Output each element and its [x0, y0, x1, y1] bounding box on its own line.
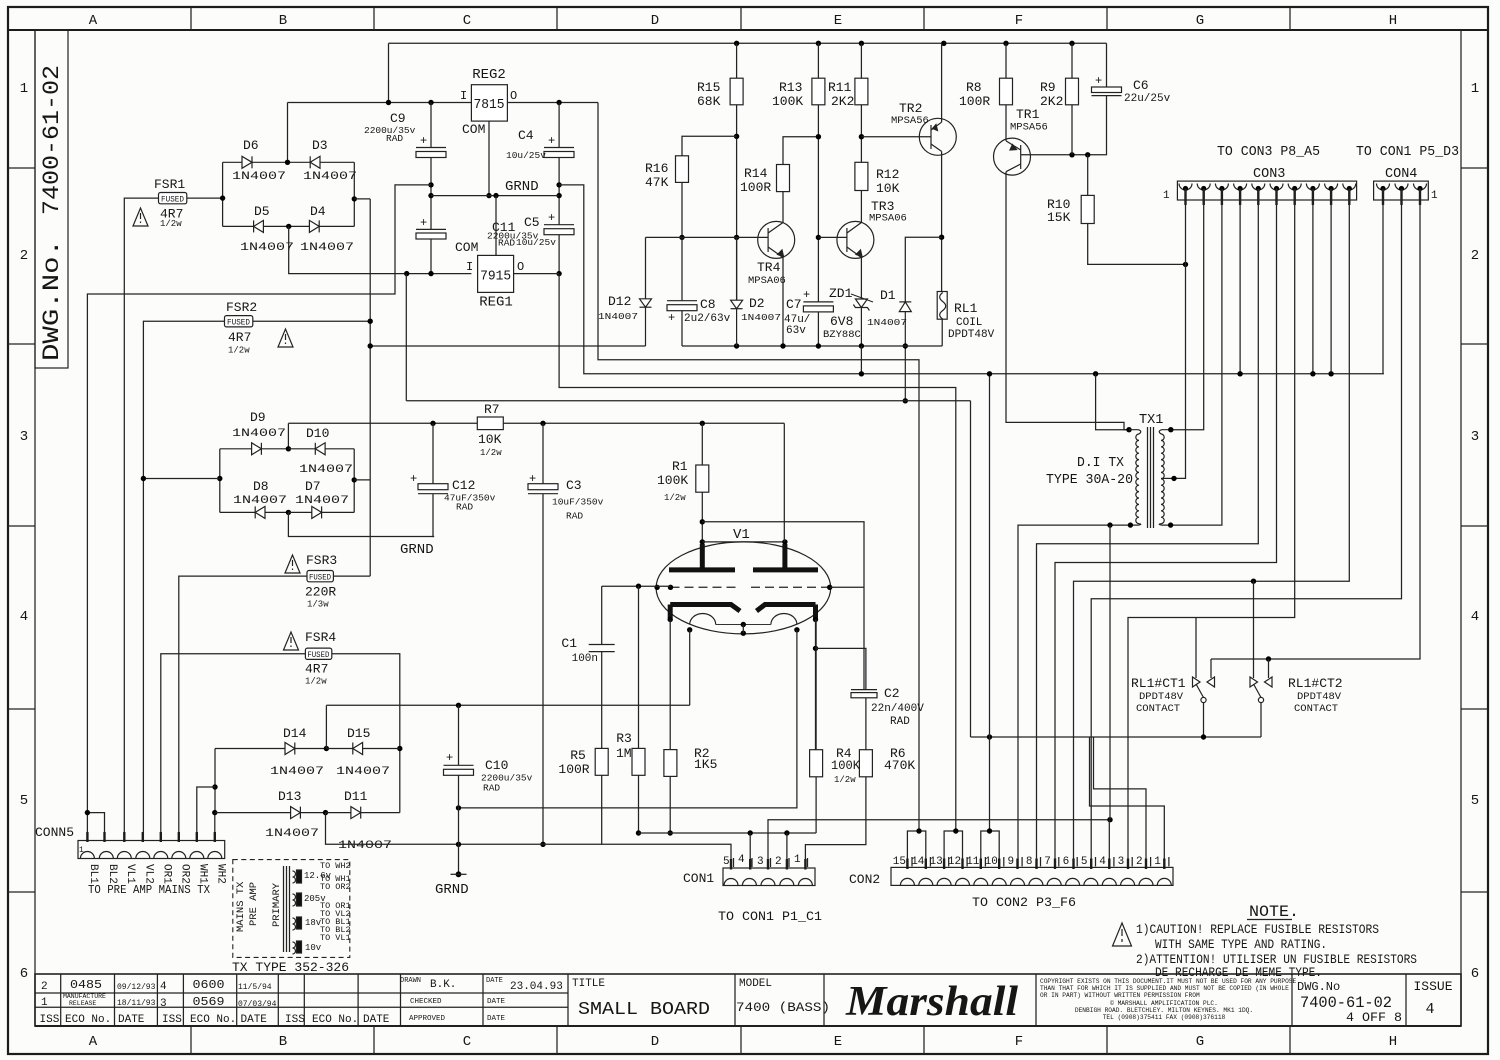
- svg-text:FUSED: FUSED: [309, 574, 331, 583]
- fusible resistor FSR3: [307, 571, 333, 582]
- svg-text:6: 6: [1063, 856, 1070, 868]
- svg-text:4: 4: [20, 609, 28, 625]
- wire R6 bottom to CON1 pin1: [805, 777, 866, 868]
- diode D8: [220, 506, 289, 518]
- resistor R12: [855, 162, 868, 190]
- svg-text:+: +: [548, 211, 555, 225]
- wire R4 top to cathode dot: [815, 620, 817, 750]
- svg-text:MPSA56: MPSA56: [1010, 122, 1048, 134]
- wire C9 column: [430, 103, 432, 148]
- svg-text:11/5/94: 11/5/94: [238, 983, 272, 992]
- wire CON3 pin3 drop to TX1 bottom right: [1171, 189, 1222, 526]
- V1 anode plates: [669, 567, 735, 572]
- capacitor C10: [458, 705, 460, 765]
- svg-text:C7: C7: [786, 297, 802, 312]
- svg-text:R8: R8: [966, 80, 982, 95]
- wire -15V down: [559, 274, 956, 831]
- svg-text:11: 11: [966, 856, 980, 868]
- svg-text:3: 3: [1118, 856, 1125, 868]
- wire BL2 jog: [87, 813, 104, 841]
- ground symbol GRND bottom: [456, 871, 462, 877]
- svg-text:TO WH2: TO WH2: [320, 861, 351, 871]
- svg-text:B: B: [279, 13, 287, 29]
- svg-text:470K: 470K: [884, 758, 915, 773]
- svg-text:FUSED: FUSED: [161, 196, 184, 205]
- svg-text:2: 2: [1136, 856, 1143, 868]
- wire CON1 pin4 riser: [749, 833, 751, 868]
- wire CON3 pin5 drop to CON2 pin8: [1037, 189, 1259, 869]
- svg-text:TO VL1: TO VL1: [320, 933, 351, 943]
- wire vertical from REG1 input line down: [405, 274, 407, 401]
- wire R15 tap to R16: [682, 136, 737, 156]
- svg-text:GRND: GRND: [400, 542, 434, 558]
- svg-text:1N4007: 1N4007: [336, 766, 390, 778]
- wire HT drop to V1b anode: [783, 423, 785, 542]
- diode D7: [288, 506, 354, 518]
- svg-text:C4: C4: [518, 128, 534, 143]
- svg-text:FSR4: FSR4: [305, 630, 336, 645]
- wire bridge1 bottom center to REG1 input line: [289, 226, 472, 273]
- svg-text:TO CON1 P5_D3: TO CON1 P5_D3: [1356, 145, 1459, 160]
- svg-text:TX1: TX1: [1139, 413, 1163, 428]
- svg-text:4R7: 4R7: [305, 662, 328, 677]
- wire FSR4 left lead to OR1 column: [161, 654, 306, 841]
- svg-text:D7: D7: [305, 479, 321, 494]
- svg-text:O: O: [517, 260, 524, 274]
- resistor R9: [1071, 43, 1073, 78]
- svg-text:1: 1: [1154, 856, 1161, 868]
- svg-text:5: 5: [1081, 856, 1088, 868]
- svg-text:TO CON1 P1_C1: TO CON1 P1_C1: [718, 909, 822, 924]
- wire component ground rail: [682, 345, 942, 347]
- svg-text:TR1: TR1: [1016, 107, 1040, 122]
- svg-text:FSR1: FSR1: [154, 177, 185, 192]
- svg-text:D10: D10: [306, 426, 329, 441]
- svg-text:1N4007: 1N4007: [270, 766, 324, 778]
- svg-text:WH2: WH2: [215, 864, 227, 884]
- svg-text:0569: 0569: [193, 995, 225, 1009]
- svg-text:I: I: [466, 260, 473, 274]
- wire R11 bottom to R12 / TR2 base: [860, 105, 862, 163]
- svg-text:R13: R13: [779, 80, 802, 95]
- svg-text:1: 1: [794, 854, 801, 866]
- wire anode tie: [702, 541, 785, 543]
- node bridge1 top center: [285, 160, 290, 165]
- svg-text:TO PRE AMP MAINS TX: TO PRE AMP MAINS TX: [88, 883, 210, 897]
- V1 cathodes: [670, 605, 740, 612]
- svg-text:1: 1: [1163, 190, 1170, 202]
- wire TR4 base row: [646, 236, 769, 238]
- svg-text:1N4007: 1N4007: [303, 171, 357, 183]
- wire R2 bottom: [669, 776, 671, 833]
- diode D11: [326, 807, 400, 819]
- wire D14 center tap up to heater rail: [325, 705, 327, 748]
- svg-text:DPDT48V: DPDT48V: [1139, 691, 1184, 703]
- wire CON1 pin3 riser to TX tap line: [768, 820, 1110, 868]
- svg-text:100K: 100K: [657, 473, 688, 488]
- wire GRND rail: [431, 195, 559, 197]
- svg-text:CON4: CON4: [1385, 167, 1417, 182]
- svg-text:TO CON2 P3_F6: TO CON2 P3_F6: [972, 895, 1076, 910]
- svg-text:MAINS TX: MAINS TX: [235, 881, 247, 932]
- wire right tap to grnd line: [354, 479, 370, 481]
- wire C10 bottom column: [458, 775, 460, 874]
- svg-text:D11: D11: [344, 789, 368, 804]
- wire bridge1 left rail: [222, 162, 224, 226]
- svg-text:COIL: COIL: [956, 317, 982, 329]
- svg-text:3: 3: [20, 429, 28, 445]
- svg-text:10u/25v: 10u/25v: [516, 237, 556, 248]
- svg-text:OR1: OR1: [161, 864, 173, 884]
- svg-text:D: D: [651, 13, 659, 29]
- wire ground riser to CON2 link 11-10: [989, 374, 991, 831]
- wire long vertical FSR feed: [369, 199, 371, 576]
- wire ground bus taps: [1093, 371, 1098, 376]
- svg-text:© MARSHALL AMPLIFICATION PLC.: © MARSHALL AMPLIFICATION PLC.: [1110, 1000, 1218, 1007]
- svg-text:2u2/63v: 2u2/63v: [684, 313, 731, 325]
- svg-text:5: 5: [1471, 793, 1479, 809]
- svg-text:10u/25v: 10u/25v: [506, 150, 546, 161]
- wire REG1 COM up to GRND rail: [495, 196, 497, 256]
- svg-text:220R: 220R: [305, 585, 336, 600]
- svg-text:47K: 47K: [645, 175, 669, 190]
- svg-text:DATE: DATE: [487, 998, 506, 1006]
- svg-text:E: E: [834, 1034, 842, 1050]
- svg-text:+: +: [803, 288, 810, 302]
- wire CON4 pin2 drop to CON2 pin5: [1091, 189, 1401, 869]
- svg-text:6: 6: [20, 966, 28, 982]
- wire R1 bottom / anode column: [701, 492, 703, 556]
- svg-text:D: D: [651, 1034, 659, 1050]
- svg-text:1N4007: 1N4007: [299, 464, 353, 476]
- svg-text:7: 7: [1044, 856, 1051, 868]
- wire REG1 output: [514, 273, 560, 275]
- CONN5 pin labels: [87, 864, 227, 884]
- svg-text:DENBIGH ROAD. BLETCHLEY. MILTO: DENBIGH ROAD. BLETCHLEY. MILTON KEYNES. …: [1075, 1007, 1253, 1014]
- svg-text:COM: COM: [455, 240, 478, 255]
- svg-text:4: 4: [160, 981, 167, 993]
- wire cathode rail: [639, 832, 817, 834]
- svg-text:C9: C9: [390, 111, 406, 126]
- svg-text:THAN THAT FOR WHICH IT IS SUPP: THAN THAT FOR WHICH IT IS SUPPLIED AND M…: [1040, 985, 1289, 992]
- svg-text:2: 2: [41, 981, 48, 993]
- wire TR1 collector down to TX1: [1006, 172, 1129, 430]
- wire CON3 pin2 drop to TX1 top right: [1171, 189, 1204, 430]
- svg-text:Marshall: Marshall: [845, 979, 1018, 1025]
- wire CON4 pin1 drop to ground bus end: [1382, 189, 1384, 374]
- svg-text:FUSED: FUSED: [307, 651, 329, 660]
- wire bridge1 right rail: [353, 162, 355, 226]
- node bridge1 right rail tap: [352, 196, 357, 201]
- svg-text:E: E: [834, 13, 842, 29]
- svg-text:ISS: ISS: [162, 1014, 182, 1026]
- svg-text:RAD: RAD: [566, 511, 583, 522]
- svg-text:CON2: CON2: [849, 872, 880, 887]
- svg-text:D5: D5: [254, 204, 270, 219]
- wire CON3 pin4 drop to ground bus: [1239, 189, 1241, 374]
- svg-text:+: +: [529, 472, 536, 486]
- warning triangle FSR4: [284, 632, 299, 650]
- diode D2: [731, 300, 743, 346]
- svg-text:R16: R16: [645, 161, 668, 176]
- svg-text:1: 1: [41, 997, 48, 1009]
- svg-text:100R: 100R: [959, 94, 990, 109]
- wire C1 bottom to R5: [601, 652, 603, 749]
- svg-text:1M: 1M: [616, 746, 632, 761]
- svg-text:+: +: [420, 216, 427, 230]
- svg-text:15: 15: [893, 856, 906, 868]
- wire C11 bottom to REG1 input line: [430, 239, 432, 274]
- svg-text:5: 5: [20, 793, 28, 809]
- wire FSR3 left lead to OR2 column: [179, 576, 307, 840]
- svg-text:6V8: 6V8: [830, 314, 853, 329]
- svg-text:+: +: [410, 472, 417, 486]
- svg-text:WITH SAME TYPE AND RATING.: WITH SAME TYPE AND RATING.: [1155, 937, 1327, 952]
- wire R14 top to R13 bottom: [783, 137, 818, 165]
- svg-text:+: +: [420, 134, 427, 148]
- svg-text:63v: 63v: [786, 325, 806, 337]
- svg-text:BL2: BL2: [106, 864, 118, 884]
- svg-text:NOTE.: NOTE.: [1249, 903, 1299, 921]
- wire +15V down right of C4: [598, 103, 919, 832]
- relay coil RL1: [937, 292, 947, 320]
- svg-text:REG2: REG2: [472, 67, 506, 83]
- svg-text:RELEASE: RELEASE: [69, 1000, 96, 1007]
- resistor R5: [595, 748, 608, 775]
- wire D12 branch: [645, 237, 647, 298]
- wire CT2 upper feed: [1253, 581, 1255, 678]
- wire bridge1 right tap across to FSR vertical: [354, 198, 370, 200]
- svg-text:TR4: TR4: [757, 260, 781, 275]
- capacitor C9: [416, 148, 446, 158]
- svg-text:1/2w: 1/2w: [160, 219, 182, 229]
- capacitor C11: [416, 229, 446, 239]
- wire FSR2 right lead: [253, 320, 370, 322]
- svg-text:D1: D1: [880, 288, 896, 303]
- wire V1b cathode column: [815, 620, 817, 750]
- svg-text:FSR2: FSR2: [226, 300, 257, 315]
- svg-text:D9: D9: [250, 410, 266, 425]
- svg-text:10K: 10K: [478, 432, 502, 447]
- capacitor C4: [544, 148, 574, 158]
- wire FSR1 left lead to VL1 column: [124, 198, 158, 840]
- svg-text:VL1: VL1: [124, 864, 136, 884]
- wire TX1 bottom left lead to CON2 pin9: [1018, 525, 1130, 868]
- wire bridge2 left tap to VL2 column: [143, 478, 219, 480]
- svg-text:07/03/94: 07/03/94: [238, 1000, 277, 1009]
- transistor TR2: [919, 118, 956, 155]
- wire V1b grid solid extension: [830, 586, 864, 588]
- svg-text:10: 10: [985, 856, 998, 868]
- svg-text:100n: 100n: [572, 653, 598, 665]
- resistor R2: [669, 620, 671, 750]
- svg-text:1N4007: 1N4007: [240, 242, 294, 254]
- resistor R1: [701, 423, 703, 465]
- svg-text:DWG.No: DWG.No: [1297, 980, 1340, 994]
- svg-text:R1: R1: [672, 459, 688, 474]
- svg-text:C3: C3: [566, 478, 582, 493]
- svg-text:TO CON3 P8_A5: TO CON3 P8_A5: [1217, 145, 1320, 160]
- svg-text:2K2: 2K2: [1040, 94, 1063, 109]
- svg-text:4: 4: [738, 854, 745, 866]
- svg-text:1N4007: 1N4007: [598, 311, 638, 322]
- wire TR4 emitter down to rail: [782, 258, 784, 347]
- svg-text:1N4007: 1N4007: [233, 495, 287, 507]
- wire TR1 base line: [1021, 154, 1106, 156]
- diode D14: [215, 743, 326, 755]
- svg-text:TYPE 30A-20: TYPE 30A-20: [1046, 473, 1133, 488]
- svg-text:1/2w: 1/2w: [305, 677, 327, 687]
- wire TR3 emitter to ZD1: [860, 258, 862, 300]
- warning triangle FSR3: [285, 555, 300, 573]
- wire heater left pin down: [689, 630, 691, 706]
- diode D13: [215, 807, 326, 819]
- svg-text:6: 6: [1471, 966, 1479, 982]
- svg-text:1)CAUTION! REPLACE FUSIBLE RES: 1)CAUTION! REPLACE FUSIBLE RESISTORS: [1136, 922, 1379, 937]
- svg-text:A: A: [89, 1034, 98, 1050]
- wire C2 bottom to R6: [865, 698, 867, 750]
- zener diode ZD1: [851, 294, 873, 346]
- svg-text:15K: 15K: [1047, 210, 1071, 225]
- warning triangle FSR1: [133, 208, 148, 226]
- svg-text:+: +: [548, 134, 555, 148]
- svg-text:RAD: RAD: [498, 238, 515, 249]
- TX secondary windings: [293, 870, 302, 954]
- resistor R10: [1087, 155, 1089, 196]
- TX core lines: [283, 866, 285, 952]
- svg-text:7400 (BASS): 7400 (BASS): [736, 1000, 830, 1015]
- svg-text:1N4007: 1N4007: [300, 242, 354, 254]
- svg-text:G: G: [1196, 13, 1204, 29]
- svg-text:V1: V1: [733, 527, 750, 543]
- connector CONN5: [78, 841, 225, 859]
- wire CON3 pin8 drop: [1312, 189, 1314, 374]
- wire bridge2 left rail: [219, 449, 221, 513]
- svg-text:D13: D13: [278, 789, 301, 804]
- svg-text:TX TYPE 352-326: TX TYPE 352-326: [232, 960, 349, 975]
- svg-text:RL1#CT2: RL1#CT2: [1288, 676, 1343, 691]
- svg-text:FUSED: FUSED: [227, 319, 250, 328]
- svg-text:5: 5: [723, 856, 730, 868]
- transistor TR3: [837, 221, 874, 258]
- svg-text:1N4007: 1N4007: [867, 317, 907, 328]
- svg-text:1/3w: 1/3w: [307, 600, 329, 610]
- svg-text:22u/25v: 22u/25v: [1124, 93, 1171, 105]
- svg-text:H: H: [1389, 1034, 1397, 1050]
- wire C2 branch: [816, 648, 866, 689]
- svg-text:D2: D2: [749, 296, 765, 311]
- svg-text:REG1: REG1: [479, 295, 513, 311]
- diode D15: [326, 743, 399, 755]
- svg-text:RL1#CT1: RL1#CT1: [1131, 676, 1186, 691]
- svg-text:B.K.: B.K.: [430, 979, 456, 991]
- svg-text:C8: C8: [700, 297, 716, 312]
- wire RL1 bottom to rail: [941, 319, 943, 346]
- svg-text:68K: 68K: [697, 94, 721, 109]
- svg-text:GRND: GRND: [505, 179, 539, 195]
- svg-text:VL2: VL2: [143, 864, 155, 884]
- svg-text:14: 14: [911, 856, 925, 868]
- svg-text:GRND: GRND: [435, 882, 469, 898]
- svg-text:4R7: 4R7: [228, 330, 251, 345]
- regulator REG1 7915: [478, 255, 514, 292]
- svg-text:D4: D4: [310, 204, 326, 219]
- svg-text:D.I TX: D.I TX: [1077, 456, 1124, 471]
- svg-text:C5: C5: [524, 215, 540, 230]
- wire V1a anode to V1b grid coupling: [702, 522, 864, 690]
- svg-text:ISS: ISS: [40, 1014, 60, 1026]
- wire CON3 pin1 drop to TX1 mid tap: [1174, 189, 1186, 479]
- transistor TR4: [758, 221, 795, 258]
- svg-text:1/2w: 1/2w: [664, 493, 686, 503]
- svg-text:CON3: CON3: [1253, 167, 1285, 182]
- svg-text:1: 1: [1471, 81, 1479, 97]
- svg-text:1N4007: 1N4007: [265, 828, 319, 840]
- svg-text:D3: D3: [312, 138, 328, 153]
- fusible resistor FSR1: [159, 193, 187, 204]
- capacitor C2: [851, 690, 877, 698]
- resistor R3: [638, 586, 640, 748]
- svg-text:9: 9: [1007, 856, 1014, 868]
- wire raw supply bus4: [406, 400, 970, 402]
- svg-text:A: A: [89, 13, 98, 29]
- wire C4 column: [558, 103, 560, 148]
- wire bridge2 bottom center to GRND line: [288, 512, 434, 536]
- wire R8 bottom to TR1 emitter: [1005, 105, 1007, 141]
- svg-text:+: +: [1095, 74, 1102, 88]
- svg-text:DWG.No.: DWG.No.: [39, 239, 65, 361]
- svg-text:BZY88C: BZY88C: [823, 329, 861, 341]
- wire CON3 pin9 drop: [1330, 189, 1332, 374]
- svg-text:+: +: [668, 311, 675, 325]
- svg-text:ISSUE: ISSUE: [1413, 979, 1452, 994]
- svg-text:DATE: DATE: [486, 977, 503, 985]
- wire HT rail to R7: [288, 422, 784, 424]
- wire TX1 left tap down to CON1 pin3 line: [1109, 525, 1111, 820]
- wire WH rail: [214, 749, 216, 813]
- svg-text:D14: D14: [283, 726, 307, 741]
- svg-text:D6: D6: [243, 138, 259, 153]
- wire CON3 pin7 drop to CON2 pin3: [1128, 189, 1295, 869]
- svg-text:C10: C10: [485, 758, 508, 773]
- wire REG2 input line: [288, 102, 472, 104]
- svg-text:F: F: [1015, 13, 1023, 29]
- svg-text:MANUFACTURE: MANUFACTURE: [63, 993, 106, 1000]
- top +supply bus wire: [389, 42, 1107, 44]
- svg-text:F: F: [1015, 1034, 1023, 1050]
- wire R4 bottom to cathode rail: [815, 777, 817, 833]
- svg-text:RAD: RAD: [483, 783, 500, 794]
- svg-text:3: 3: [160, 998, 167, 1010]
- svg-text:TITLE: TITLE: [572, 978, 605, 990]
- svg-text:CHECKED: CHECKED: [410, 998, 442, 1006]
- svg-text:23.04.93: 23.04.93: [510, 981, 563, 993]
- diode D4: [289, 220, 355, 232]
- wire TR4 collector to R14: [782, 192, 784, 223]
- wire C5 bottom to REG1 output: [558, 235, 560, 274]
- resistor R4: [810, 750, 823, 777]
- connector CON1: [723, 868, 815, 886]
- svg-text:2: 2: [1471, 248, 1479, 264]
- wire GRND branch left of C9: [87, 185, 431, 841]
- wire FSR3 right lead: [333, 575, 370, 577]
- wire REG2 COM down to GRND rail: [488, 121, 490, 196]
- svg-text:I: I: [460, 89, 467, 103]
- diode D3: [288, 156, 355, 168]
- svg-text:ECO No.: ECO No.: [190, 1014, 236, 1026]
- svg-text:R12: R12: [876, 167, 899, 182]
- wire CON3 pin6 drop to CON2 pin7: [1055, 189, 1277, 869]
